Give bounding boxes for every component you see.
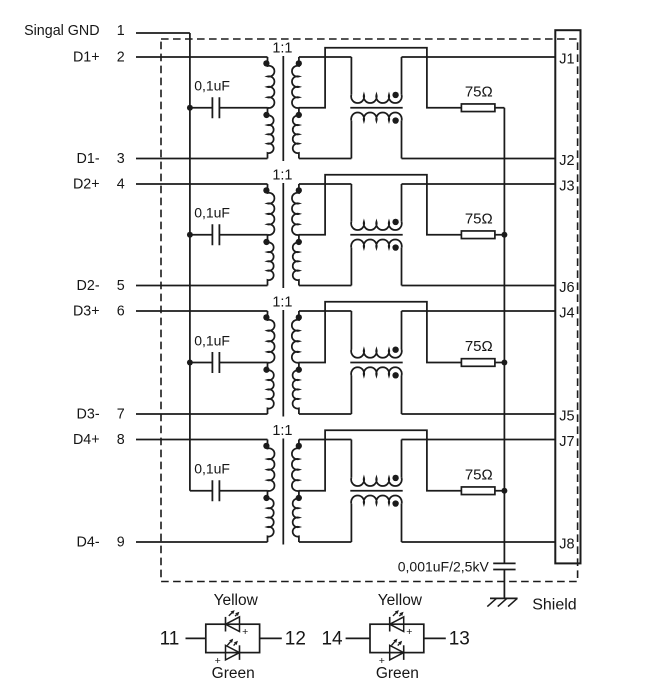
transformer T4 primary winding top half — [268, 440, 275, 491]
transformer T2 primary winding top half — [268, 184, 275, 235]
wire secondary bottom to choke L4 — [299, 541, 352, 543]
pin number 7 — [117, 407, 125, 423]
svg-text:3: 3 — [117, 151, 125, 167]
wire capacitor C5 to shield ground — [503, 570, 505, 599]
choke L2 dot lower — [392, 244, 398, 250]
wire secondary bottom to choke L1 — [299, 158, 352, 160]
svg-text:75Ω: 75Ω — [465, 83, 493, 100]
transformer T3 core — [282, 310, 284, 417]
pin number 6 — [117, 304, 125, 320]
wire pin 1 to GND rail — [136, 32, 190, 34]
svg-text:J2: J2 — [559, 153, 574, 169]
capacitor C2 0,1uF — [212, 224, 219, 245]
wire resistor R1 to shield rail — [495, 107, 505, 109]
LED green (points right) — [390, 639, 404, 660]
choke L2 dot upper — [392, 219, 398, 225]
pin label D1- — [77, 151, 100, 167]
svg-text:+: + — [242, 626, 248, 638]
wire D2+ to transformer T2 primary top — [136, 183, 268, 185]
transformer T3 primary dot centre — [263, 367, 269, 373]
pin number 12 — [285, 629, 306, 650]
wire secondary centre tap over-route (channel 2) — [299, 175, 462, 235]
choke L4 dot upper — [392, 475, 398, 481]
svg-text:0,1uF: 0,1uF — [194, 78, 230, 94]
label 1:1 (transformer T4) — [272, 423, 292, 439]
value label 0,1uF (C2) — [194, 205, 230, 221]
wire GND rail to capacitor C2 — [190, 234, 213, 236]
wire resistor R4 to shield rail — [495, 490, 505, 492]
transformer T4 secondary winding top half — [292, 440, 299, 491]
value label 75 ohm (R1) — [465, 83, 493, 100]
svg-text:2: 2 — [117, 50, 125, 66]
choke L4 lower winding — [351, 495, 402, 542]
choke L3 core — [350, 362, 402, 364]
wire secondary top to choke L1 — [299, 56, 352, 58]
wire secondary bottom to choke L2 — [299, 285, 352, 287]
junction GND rail / capacitor C2 — [187, 232, 193, 238]
value label 75 ohm (R3) — [465, 338, 493, 355]
capacitor C5 0,001uF/2,5kV — [493, 563, 515, 569]
svg-text:75Ω: 75Ω — [465, 210, 493, 227]
label "Yellow" — [378, 592, 423, 609]
svg-text:14: 14 — [321, 629, 343, 650]
svg-text:Green: Green — [376, 665, 419, 682]
pin label J7 — [559, 434, 574, 450]
wire D4+ to transformer T4 primary top — [136, 439, 268, 441]
polarity + (yellow LED) — [406, 626, 412, 638]
svg-text:1:1: 1:1 — [272, 423, 292, 439]
svg-text:D2+: D2+ — [73, 177, 100, 193]
wire resistor R2 to shield rail — [495, 234, 505, 236]
svg-text:12: 12 — [285, 629, 306, 650]
LED pair frame — [206, 624, 260, 652]
dashed module boundary box — [161, 39, 578, 582]
svg-text:9: 9 — [117, 535, 125, 551]
svg-text:1: 1 — [117, 23, 125, 39]
wire LED pair to pin 12 — [260, 637, 282, 639]
connector J1-J8 body — [555, 30, 580, 563]
value label 75 ohm (R4) — [465, 466, 493, 483]
transformer T3 primary winding bottom half — [268, 363, 274, 415]
svg-text:0,1uF: 0,1uF — [194, 332, 230, 348]
svg-text:7: 7 — [117, 407, 125, 423]
LED yellow (points left) — [390, 610, 404, 631]
wire choke L1 to pin J1 — [402, 56, 556, 58]
capacitor C1 0,1uF — [212, 97, 219, 118]
transformer T2 primary winding bottom half — [268, 235, 274, 286]
transformer T2 secondary winding bottom half — [293, 235, 299, 286]
label 1:1 (transformer T3) — [272, 294, 292, 310]
choke L2 core — [350, 234, 402, 236]
wire capacitor C4 to primary centre tap — [219, 490, 267, 492]
pin number 13 — [449, 629, 470, 650]
pin number 11 — [160, 629, 180, 650]
wire D3+ to transformer T3 primary top — [136, 310, 268, 312]
svg-text:J3: J3 — [559, 179, 574, 195]
transformer T4 secondary dot centre — [296, 495, 302, 501]
resistor R1 75 ohm — [461, 104, 495, 112]
svg-text:Shield: Shield — [532, 597, 576, 614]
pin number 14 — [321, 629, 343, 650]
wire secondary bottom to choke L3 — [299, 413, 352, 415]
LED pair frame — [370, 624, 424, 652]
junction resistor R3 / shield rail — [501, 360, 507, 366]
choke L4 dot lower — [392, 500, 398, 506]
svg-text:1:1: 1:1 — [272, 294, 292, 310]
value label 0,1uF (C1) — [194, 78, 230, 94]
wire GND rail to capacitor C3 — [190, 362, 213, 364]
shield rail vertical wire — [503, 108, 505, 564]
shield ground symbol — [487, 598, 517, 606]
wire secondary top to choke L2 — [299, 183, 352, 185]
svg-text:D1+: D1+ — [73, 50, 100, 66]
wire choke L3 to pin J5 — [402, 413, 556, 415]
wire choke L1 to pin J2 — [402, 158, 556, 160]
wire secondary centre tap over-route (channel 1) — [299, 48, 462, 108]
pin label J5 — [559, 409, 574, 425]
choke L3 lower winding — [351, 367, 402, 414]
label "Green" — [376, 665, 419, 682]
pin number 3 — [117, 151, 125, 167]
transformer T1 primary dot top — [263, 60, 269, 66]
junction resistor R4 / shield rail — [501, 488, 507, 494]
pin number 9 — [117, 535, 125, 551]
transformer T1 primary winding bottom half — [268, 108, 274, 159]
choke L1 dot lower — [392, 117, 398, 123]
label 1:1 (transformer T2) — [272, 167, 292, 183]
pin label D2- — [77, 278, 100, 294]
transformer T2 secondary winding top half — [292, 184, 299, 235]
wire choke L2 to pin J6 — [402, 285, 556, 287]
wire choke L4 to pin J7 — [402, 439, 556, 441]
pin number 5 — [117, 278, 125, 294]
transformer T3 primary winding top half — [268, 311, 275, 363]
svg-text:1:1: 1:1 — [272, 167, 292, 183]
wire choke L3 to pin J4 — [402, 310, 556, 312]
wire D3- to transformer T3 primary bottom — [136, 413, 268, 415]
transformer T4 primary dot top — [263, 443, 269, 449]
wire secondary centre tap over-route (channel 4) — [299, 430, 462, 490]
svg-text:J6: J6 — [559, 280, 574, 296]
wire secondary top to choke L4 — [299, 439, 352, 441]
pin label J8 — [559, 537, 574, 553]
wire choke L2 to pin J3 — [402, 183, 556, 185]
svg-text:J5: J5 — [559, 409, 574, 425]
choke L1 lower winding — [351, 112, 402, 158]
pin label D2+ — [73, 177, 100, 193]
pin label J6 — [559, 280, 574, 296]
transformer T2 primary dot top — [263, 187, 269, 193]
wire capacitor C1 to primary centre tap — [219, 107, 267, 109]
wire GND rail to capacitor C1 — [190, 107, 213, 109]
transformer T1 secondary dot top — [296, 60, 302, 66]
transformer T1 primary winding top half — [268, 57, 275, 108]
choke L1 dot upper — [392, 92, 398, 98]
wire GND rail to capacitor C4 — [190, 490, 213, 492]
svg-text:0,1uF: 0,1uF — [194, 205, 230, 221]
wire D4- to transformer T4 primary bottom — [136, 541, 268, 543]
svg-text:75Ω: 75Ω — [465, 466, 493, 483]
pin label D3- — [77, 407, 100, 423]
svg-text:J7: J7 — [559, 434, 574, 450]
capacitor C3 0,1uF — [212, 352, 219, 373]
wire pin 14 to LED pair — [346, 637, 370, 639]
value label 75 ohm (R2) — [465, 210, 493, 227]
transformer T4 primary winding bottom half — [268, 491, 274, 542]
junction resistor R2 / shield rail — [501, 232, 507, 238]
svg-text:6: 6 — [117, 304, 125, 320]
pin number 8 — [117, 432, 125, 448]
choke L1 upper winding — [351, 57, 402, 103]
svg-text:D4+: D4+ — [73, 432, 100, 448]
LED green (points right) — [226, 639, 240, 660]
label 1:1 (transformer T1) — [272, 40, 292, 56]
transformer T2 core — [282, 183, 284, 288]
pin label D4+ — [73, 432, 100, 448]
transformer T3 primary dot top — [263, 314, 269, 320]
choke L3 upper winding — [351, 311, 402, 358]
GND rail vertical wire — [189, 33, 191, 491]
wire capacitor C2 to primary centre tap — [219, 234, 267, 236]
resistor R2 75 ohm — [461, 231, 495, 239]
wire D2- to transformer T2 primary bottom — [136, 285, 268, 287]
transformer T3 secondary winding bottom half — [293, 363, 299, 415]
wire secondary centre tap over-route (channel 3) — [299, 302, 462, 363]
wire secondary top to choke L3 — [299, 310, 352, 312]
wire capacitor C3 to primary centre tap — [219, 362, 267, 364]
svg-text:D4-: D4- — [77, 535, 100, 551]
capacitor C4 0,1uF — [212, 480, 219, 501]
junction GND rail / capacitor C3 — [187, 360, 193, 366]
transformer T1 primary dot centre — [263, 112, 269, 118]
transformer T3 secondary winding top half — [292, 311, 299, 363]
svg-text:D3-: D3- — [77, 407, 100, 423]
pin number 2 — [117, 50, 125, 66]
transformer T2 primary dot centre — [263, 239, 269, 245]
svg-text:D1-: D1- — [77, 151, 100, 167]
transformer T1 secondary dot centre — [296, 112, 302, 118]
svg-text:11: 11 — [160, 629, 180, 650]
value label 0,1uF (C3) — [194, 332, 230, 348]
transformer T1 secondary winding bottom half — [293, 108, 299, 159]
pin label J4 — [559, 306, 574, 322]
transformer T1 secondary winding top half — [292, 57, 299, 108]
LED yellow (points left) — [226, 610, 240, 631]
svg-text:J8: J8 — [559, 537, 574, 553]
junction GND rail / capacitor C1 — [187, 105, 193, 111]
transformer T2 secondary dot top — [296, 187, 302, 193]
choke L4 upper winding — [351, 440, 402, 487]
wire resistor R3 to shield rail — [495, 362, 505, 364]
svg-text:1:1: 1:1 — [272, 40, 292, 56]
svg-text:75Ω: 75Ω — [465, 338, 493, 355]
transformer T2 secondary dot centre — [296, 239, 302, 245]
svg-text:4: 4 — [117, 177, 125, 193]
label "Yellow" — [214, 592, 259, 609]
transformer T3 secondary dot centre — [296, 367, 302, 373]
transformer T1 core — [282, 56, 284, 161]
choke L3 dot upper — [392, 347, 398, 353]
wire choke L4 to pin J8 — [402, 541, 556, 543]
svg-text:13: 13 — [449, 629, 470, 650]
transformer T4 secondary dot top — [296, 443, 302, 449]
resistor R4 75 ohm — [461, 487, 495, 495]
transformer T4 primary dot centre — [263, 495, 269, 501]
pin 1 label "Singal GND" — [24, 23, 100, 39]
svg-text:J4: J4 — [559, 306, 574, 322]
polarity + (green LED) — [379, 655, 385, 667]
pin number 1 — [117, 23, 125, 39]
svg-text:D2-: D2- — [77, 278, 100, 294]
wire pin 11 to LED pair — [186, 637, 206, 639]
transformer T4 core — [282, 439, 284, 545]
svg-text:Green: Green — [212, 665, 255, 682]
wire D1+ to transformer T1 primary top — [136, 56, 268, 58]
svg-text:D3+: D3+ — [73, 304, 100, 320]
pin label D3+ — [73, 304, 100, 320]
label "Green" — [212, 665, 255, 682]
resistor R3 75 ohm — [461, 359, 495, 367]
pin label J3 — [559, 179, 574, 195]
choke L3 dot lower — [392, 372, 398, 378]
choke L2 upper winding — [351, 184, 402, 230]
pin label D4- — [77, 535, 100, 551]
transformer T3 secondary dot top — [296, 314, 302, 320]
svg-text:8: 8 — [117, 432, 125, 448]
wire LED pair to pin 13 — [424, 637, 446, 639]
polarity + (green LED) — [215, 655, 221, 667]
choke L2 lower winding — [351, 239, 402, 285]
svg-text:J1: J1 — [559, 52, 574, 68]
pin label J1 — [559, 52, 574, 68]
svg-text:+: + — [406, 626, 412, 638]
wire D1- to transformer T1 primary bottom — [136, 158, 268, 160]
svg-text:Singal GND: Singal GND — [24, 23, 100, 39]
svg-text:5: 5 — [117, 278, 125, 294]
polarity + (yellow LED) — [242, 626, 248, 638]
transformer T4 secondary winding bottom half — [293, 491, 299, 542]
choke L1 core — [350, 107, 402, 109]
net label "Shield" — [532, 597, 576, 614]
svg-text:Yellow: Yellow — [378, 592, 423, 609]
pin label D1+ — [73, 50, 100, 66]
svg-text:0,1uF: 0,1uF — [194, 461, 230, 477]
value label 0,001uF/2,5kV — [398, 558, 490, 574]
value label 0,1uF (C4) — [194, 461, 230, 477]
choke L4 core — [350, 490, 402, 492]
svg-text:0,001uF/2,5kV: 0,001uF/2,5kV — [398, 558, 490, 574]
svg-text:Yellow: Yellow — [214, 592, 259, 609]
pin number 4 — [117, 177, 125, 193]
pin label J2 — [559, 153, 574, 169]
